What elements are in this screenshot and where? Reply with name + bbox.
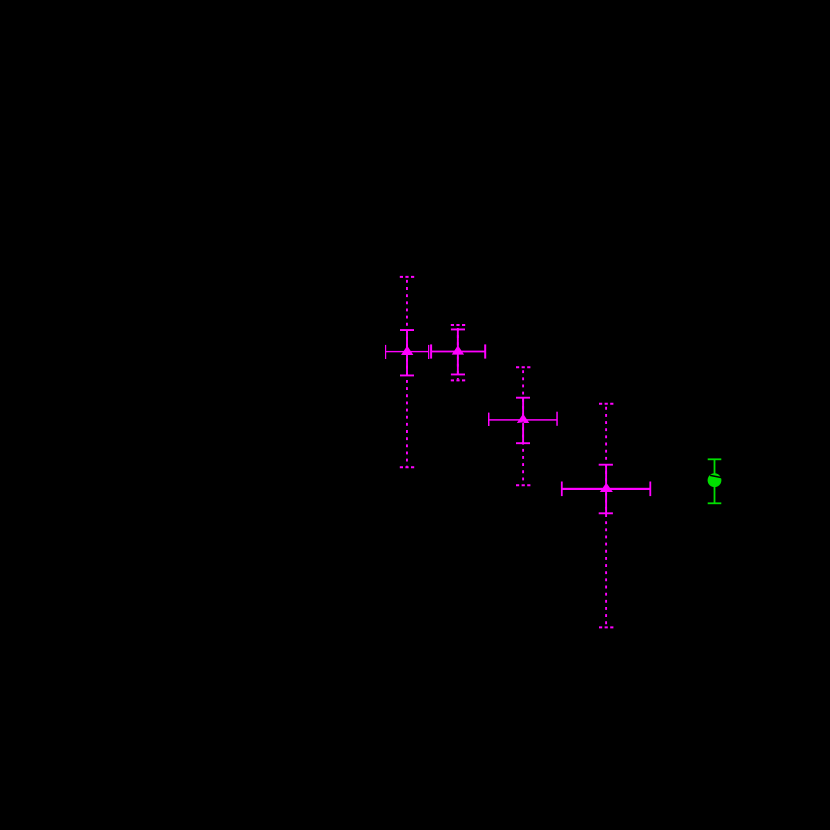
- data point P4 x-error bar: [561, 482, 651, 497]
- data point P1 triangle marker: [401, 346, 413, 355]
- data point P2 statistical y-error bar: [451, 329, 465, 376]
- green data point G circle marker: [708, 473, 722, 487]
- data point P3 statistical y-error bar: [516, 397, 530, 444]
- data point P2 triangle marker: [452, 345, 464, 354]
- data point P1 statistical y-error bar: [400, 329, 414, 376]
- black curve segment crossing G marker: [710, 475, 723, 478]
- data point P3 triangle marker: [517, 414, 529, 423]
- data point P3 systematic (dashed) y-error bar: [516, 367, 530, 485]
- data point P4 triangle marker: [600, 483, 613, 492]
- data point P2 x-error bar: [430, 344, 486, 358]
- data point P4 systematic (dashed) y-error bar: [599, 404, 613, 628]
- data point P1 systematic (dashed) y-error bar: [400, 277, 415, 467]
- data point P2 systematic (dashed) y-error bar: [451, 325, 466, 380]
- data point P4 statistical y-error bar: [599, 464, 613, 515]
- data point P3 x-error bar: [488, 412, 558, 426]
- data point P1 x-error bar: [385, 345, 429, 359]
- black curve segment crossing P3 marker: [517, 422, 524, 424]
- green data point G y-error bar: [708, 458, 722, 504]
